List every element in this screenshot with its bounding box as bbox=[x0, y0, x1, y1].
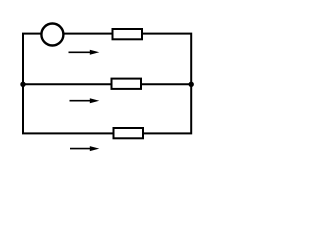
current arrow I3 (bottom branch) bbox=[70, 146, 99, 151]
resistor R1 (top branch) bbox=[113, 29, 143, 39]
node right junction bbox=[189, 82, 194, 87]
wire middle branch bbox=[23, 83, 191, 85]
wire outer loop (top, right, bottom, left) bbox=[23, 34, 191, 134]
current arrow I1 (top branch) bbox=[69, 50, 100, 55]
resistor R3 (bottom branch) bbox=[114, 128, 144, 138]
node left junction bbox=[20, 82, 25, 87]
current arrow I2 (middle branch) bbox=[70, 98, 100, 103]
resistor R2 (middle branch) bbox=[112, 79, 142, 89]
source V1 bbox=[41, 24, 63, 46]
